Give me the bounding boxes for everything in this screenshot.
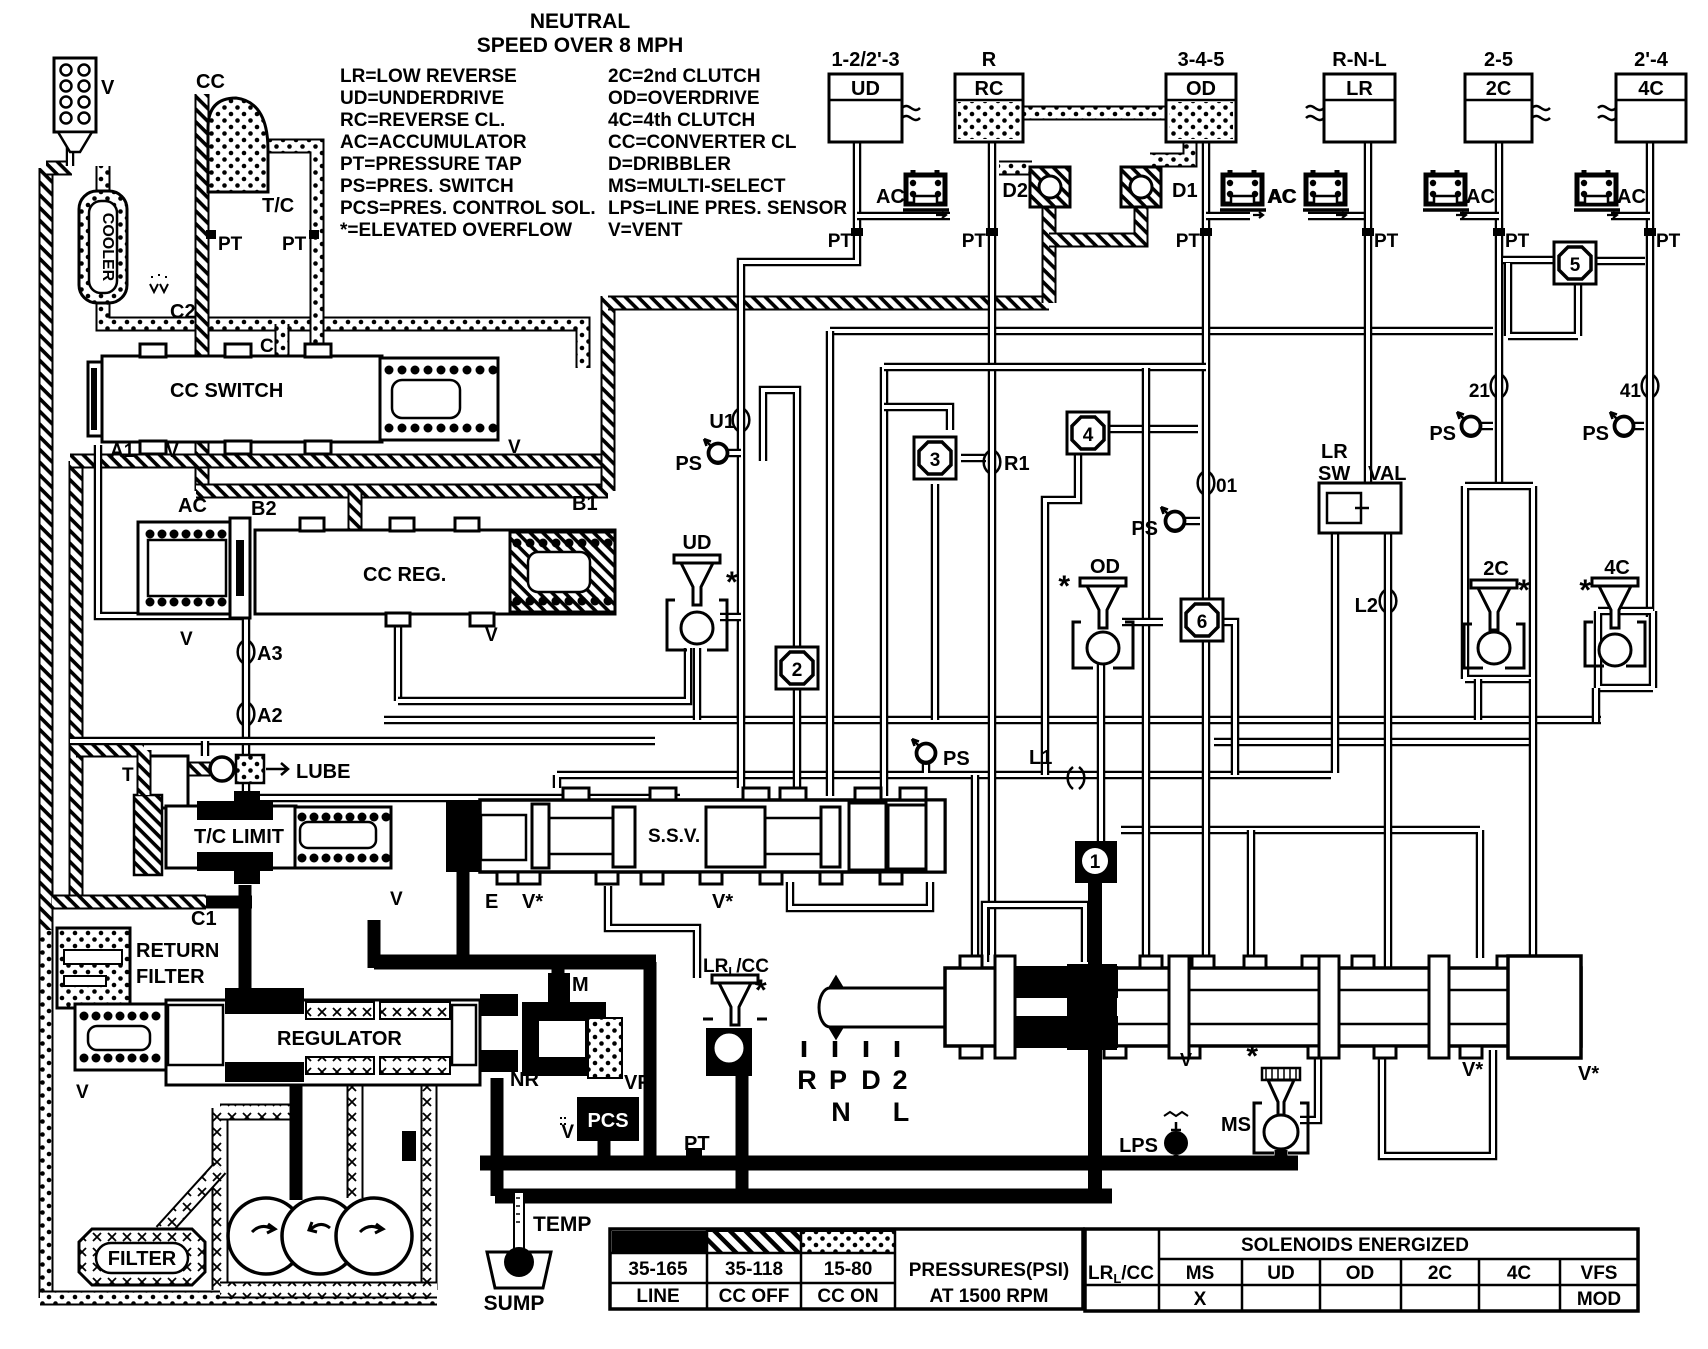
svg-text:LR: LR: [1346, 78, 1373, 100]
black pump tap: [402, 1131, 416, 1161]
svg-text:V*: V*: [1578, 1063, 1599, 1085]
svg-text:L1: L1: [1029, 747, 1052, 769]
svg-text:PT: PT: [1374, 231, 1399, 252]
pressure switch PS (UD line): [704, 439, 728, 464]
sump temp gauge: [514, 1192, 524, 1250]
svg-text:OD: OD: [1090, 556, 1120, 578]
wire suction x-pipe left vertical: [212, 1108, 229, 1290]
wire CC hatched below switch: [195, 440, 210, 491]
svg-text:15-80: 15-80: [824, 1259, 873, 1280]
wire mid riser x830: [826, 331, 835, 796]
wire A3-A2 vertical: [242, 614, 251, 798]
svg-text:PS: PS: [1582, 423, 1609, 445]
lube circuit: [210, 757, 234, 781]
wire SSV feeds: [737, 630, 746, 788]
accumulator AC left: [138, 522, 234, 614]
svg-text:MS: MS: [1186, 1263, 1215, 1284]
wire hatched D2-D1 link: [1049, 200, 1141, 240]
label U1: [733, 409, 750, 431]
check valve 2: [776, 647, 818, 689]
wire PS OD stub: [1184, 517, 1200, 526]
svg-text:V: V: [485, 625, 498, 646]
wire vent to left pipe: [46, 161, 72, 176]
svg-text:*: *: [1518, 574, 1530, 607]
svg-text:AC: AC: [1617, 186, 1646, 208]
svg-text:T/C LIMIT: T/C LIMIT: [194, 826, 284, 848]
svg-text:SOLENOIDS ENERGIZED: SOLENOIDS ENERGIZED: [1241, 1235, 1469, 1256]
svg-text:FILTER: FILTER: [108, 1248, 177, 1270]
wire mid riser x881: [880, 367, 889, 796]
svg-text:LRL/CC: LRL/CC: [1088, 1263, 1154, 1286]
wire RC clutch line: [988, 141, 997, 955]
solenoid PCS: [577, 1097, 639, 1141]
wire hatched CC REG feed: [348, 491, 363, 533]
wire black C1 horizontal: [206, 896, 252, 909]
svg-text:V*: V*: [1462, 1059, 1483, 1081]
svg-text:PRESSURES(PSI): PRESSURES(PSI): [909, 1260, 1069, 1281]
svg-text:M: M: [572, 974, 589, 996]
svg-text:LPS=LINE PRES. SENSOR: LPS=LINE PRES. SENSOR: [608, 198, 847, 219]
svg-text:D: D: [861, 1065, 881, 1095]
svg-text:4C: 4C: [1638, 78, 1664, 100]
wire L1 bus y770: [557, 775, 1331, 788]
svg-text:PS=PRES. SWITCH: PS=PRES. SWITCH: [340, 176, 514, 197]
svg-text:2C: 2C: [1428, 1263, 1453, 1284]
svg-text:B1: B1: [572, 493, 598, 515]
wire suction x-pipe mid vertical: [347, 1085, 364, 1198]
svg-text:2C=2nd CLUTCH: 2C=2nd CLUTCH: [608, 66, 761, 87]
svg-text:MOD: MOD: [1577, 1289, 1621, 1310]
check valve 4: [1067, 412, 1109, 454]
wire suction x-pipe bottom: [220, 1282, 437, 1299]
wire OD D1 dotted stub: [1150, 141, 1190, 160]
svg-text:V: V: [508, 437, 521, 458]
svg-text:OD=OVERDRIVE: OD=OVERDRIVE: [608, 88, 760, 109]
wire black band upper: [480, 1156, 1112, 1171]
svg-text:4C: 4C: [1507, 1263, 1532, 1284]
svg-text:*: *: [1579, 574, 1591, 607]
svg-text:41: 41: [1620, 381, 1642, 402]
svg-text:2: 2: [892, 1065, 907, 1095]
svg-text:V: V: [1180, 1050, 1192, 1070]
svg-text:D=DRIBBLER: D=DRIBBLER: [608, 154, 731, 175]
svg-text:35-165: 35-165: [628, 1259, 688, 1280]
svg-text:SPEED OVER 8 MPH: SPEED OVER 8 MPH: [477, 34, 684, 57]
svg-text:LR=LOW REVERSE: LR=LOW REVERSE: [340, 66, 517, 87]
label 41: [1642, 375, 1659, 397]
svg-text:CC ON: CC ON: [817, 1286, 878, 1307]
wire hatched B2 line: [196, 484, 608, 499]
svg-text:AC: AC: [876, 186, 905, 208]
wire black box1 drop: [1088, 878, 1102, 1196]
wire manual valve feeds: [975, 775, 1251, 958]
wire 2C sol drain: [1478, 679, 1533, 958]
svg-text:A3: A3: [257, 643, 283, 665]
wire black NR drop: [491, 1078, 504, 1196]
svg-text:UD: UD: [851, 78, 880, 100]
valve REGULATOR: [75, 1004, 167, 1070]
wire UD sol side link: [720, 613, 741, 622]
label L1: [1068, 767, 1085, 789]
svg-text:PT=PRESSURE TAP: PT=PRESSURE TAP: [340, 154, 522, 175]
torque converter T/C dome: [208, 98, 268, 192]
wire MS side loop: [1300, 1050, 1318, 1120]
node A2: [238, 703, 255, 725]
accumulator AC (4C): [1574, 170, 1620, 218]
wire LR SW left leg: [1331, 533, 1340, 773]
svg-text:PCS: PCS: [587, 1110, 628, 1132]
vent stack V: [54, 58, 96, 132]
svg-text:S.S.V.: S.S.V.: [648, 826, 700, 847]
svg-text:LPS: LPS: [1119, 1135, 1158, 1157]
svg-text:V: V: [101, 77, 115, 99]
svg-text:R: R: [982, 49, 997, 71]
svg-text:V: V: [561, 1122, 574, 1143]
svg-text:VF: VF: [624, 1072, 650, 1094]
svg-text:V: V: [76, 1082, 89, 1103]
wire 4C sol drain: [1592, 688, 1601, 722]
svg-text:*=ELEVATED OVERFLOW: *=ELEVATED OVERFLOW: [340, 220, 572, 241]
accumulator AC (OD): [1220, 170, 1266, 218]
accumulator AC (LR): [1303, 170, 1349, 218]
svg-text:6: 6: [1197, 612, 1208, 633]
wire circle3 top link: [884, 407, 950, 430]
wire UD sol loop horizontal: [398, 648, 688, 701]
svg-text:4C=4th CLUTCH: 4C=4th CLUTCH: [608, 110, 755, 131]
svg-text:5: 5: [1570, 255, 1581, 276]
svg-text:V: V: [166, 441, 179, 462]
svg-text:UD: UD: [683, 532, 712, 554]
svg-text:RETURN: RETURN: [136, 940, 219, 962]
pump assembly: [228, 1198, 412, 1274]
label R1: [984, 451, 1001, 473]
svg-text:V: V: [390, 889, 403, 910]
return filter: [57, 928, 130, 1008]
wire hatched riser x608: [601, 296, 616, 491]
svg-text:R-N-L: R-N-L: [1332, 49, 1386, 71]
wire A2 horizontal to SSV: [246, 794, 680, 803]
svg-text:B2: B2: [251, 498, 277, 520]
pressure switch PS (4C line): [1610, 412, 1634, 437]
dribbler D2: [1030, 167, 1070, 207]
svg-text:NEUTRAL: NEUTRAL: [530, 10, 630, 33]
wire UD sol drain: [693, 648, 702, 720]
svg-text:AC: AC: [1466, 186, 1495, 208]
wire circle3 drain: [931, 484, 940, 720]
svg-text:AT 1500 RPM: AT 1500 RPM: [930, 1286, 1049, 1307]
manual valve lever: [830, 977, 842, 1038]
wire left main hatched vertical: [39, 168, 54, 940]
wire hatched lube branch: [76, 743, 144, 758]
svg-text:3: 3: [930, 450, 941, 471]
svg-text:*: *: [1246, 1040, 1258, 1073]
wire C dotted stub: [275, 324, 290, 360]
wire main bus y720: [384, 716, 1601, 725]
svg-text:PT: PT: [828, 231, 853, 252]
svg-text:LINE: LINE: [636, 1286, 679, 1307]
svg-text:PS: PS: [943, 748, 970, 770]
wire cooler inlet dotted: [96, 166, 111, 195]
wire 4C sol loop: [1598, 611, 1653, 688]
wire black M stub: [552, 962, 565, 1000]
wire circle5 left link: [1503, 256, 1555, 265]
wire PS L1 stem: [922, 762, 931, 773]
svg-text:P: P: [829, 1065, 847, 1095]
svg-text:T: T: [122, 765, 134, 786]
svg-text:L: L: [893, 1097, 910, 1127]
wire riser x1146: [1142, 368, 1151, 958]
wire UD clutch line: [741, 142, 857, 720]
wire black header left riser: [368, 920, 381, 968]
svg-text:C1: C1: [191, 908, 217, 930]
wire second left hatched vertical: [69, 461, 84, 896]
svg-text:N: N: [831, 1097, 851, 1127]
svg-text:21: 21: [1469, 381, 1491, 402]
svg-text:PT: PT: [962, 231, 987, 252]
wire circle4 drain: [1045, 454, 1078, 775]
wire T hatched stub: [137, 750, 152, 795]
wire circle4 right link: [1108, 425, 1198, 434]
wire OD sol link to circle6: [1122, 618, 1163, 627]
svg-text:UD: UD: [1267, 1263, 1294, 1284]
wire bottom-left dotted border: [40, 1291, 437, 1306]
svg-text:FILTER: FILTER: [136, 966, 205, 988]
svg-text:CC SWITCH: CC SWITCH: [170, 380, 283, 402]
wire left dotted vertical lower: [39, 930, 54, 1298]
svg-text:VFS: VFS: [1581, 1263, 1618, 1284]
svg-text:4C: 4C: [1604, 557, 1630, 579]
wire PS 4C stub: [1633, 422, 1644, 431]
wire manual valve V stub: [1182, 1046, 1191, 1058]
svg-text:*: *: [726, 566, 738, 599]
label 01: [1198, 472, 1215, 494]
svg-text:D2: D2: [1002, 180, 1028, 202]
svg-text:R1: R1: [1004, 453, 1030, 475]
wire 2C clutch line: [1495, 142, 1504, 486]
svg-text:PT: PT: [282, 234, 307, 255]
wire black E drop: [457, 872, 470, 962]
wire CC REG left drain: [394, 624, 403, 701]
wire UD AC branch: [857, 212, 950, 221]
wire lube out: [188, 762, 210, 777]
svg-text:C: C: [260, 336, 274, 357]
wire top-right bus y331: [830, 327, 1493, 336]
svg-text:L2: L2: [1355, 595, 1378, 617]
wire circle5 bypass loop: [1508, 263, 1578, 336]
wire CC hatched vertical: [195, 94, 210, 358]
filter: [79, 1229, 205, 1285]
svg-text:PT: PT: [1505, 231, 1530, 252]
wire LR clutch line: [1364, 142, 1373, 483]
pressure switch PS (2C line): [1457, 412, 1481, 437]
pressure switch PS (OD line): [1161, 507, 1185, 532]
svg-text:AC=ACCUMULATOR: AC=ACCUMULATOR: [340, 132, 527, 153]
wire black pump riser: [290, 1085, 303, 1200]
wire circle5 right link: [1597, 257, 1645, 266]
svg-text:E: E: [485, 891, 498, 913]
wire T/C right wall dotted: [268, 146, 317, 358]
wire AC3 branch to LR: [1308, 212, 1368, 221]
wire OD AC branch: [1206, 212, 1250, 221]
wire LR SW right leg L2: [1384, 533, 1393, 1046]
wire RC D2 stub dotted: [999, 161, 1032, 176]
accumulator AC (UD): [903, 170, 949, 218]
svg-text:AC: AC: [178, 495, 207, 517]
svg-text:V*: V*: [522, 891, 543, 913]
valve T/C LIMIT: [148, 756, 188, 808]
check valve 3: [914, 437, 956, 479]
svg-text:LUBE: LUBE: [296, 761, 350, 783]
svg-text:T/C: T/C: [262, 195, 294, 217]
svg-text:PS: PS: [1131, 518, 1158, 540]
wire manual valve drain loop: [1382, 1050, 1493, 1156]
wire black LPS-MS line: [1105, 1156, 1298, 1171]
svg-text:AC: AC: [1268, 186, 1297, 208]
wire black PCS drop: [598, 1139, 611, 1163]
wire bus2 y367: [884, 363, 1206, 372]
wire 4C clutch line: [1646, 142, 1655, 617]
svg-text:2C: 2C: [1486, 78, 1512, 100]
check valve 6: [1181, 599, 1223, 641]
accumulator AC (2C): [1423, 170, 1469, 218]
svg-text:CC OFF: CC OFF: [719, 1286, 790, 1307]
wire right bus y742: [1214, 738, 1529, 747]
svg-text:CC: CC: [196, 71, 225, 93]
pressure legend table: [610, 1229, 1083, 1309]
svg-text:PT: PT: [1656, 231, 1681, 252]
wire LRL/CC feed: [608, 886, 697, 978]
svg-text:35-118: 35-118: [725, 1259, 783, 1280]
svg-text:UD=UNDERDRIVE: UD=UNDERDRIVE: [340, 88, 504, 109]
pressure control solenoid PCS area: [522, 1002, 606, 1076]
wire circle6 right link: [1221, 622, 1235, 775]
wire 4C AC branch: [1611, 212, 1650, 221]
label 21: [1491, 375, 1508, 397]
label L2: [1380, 590, 1397, 612]
wire black LRL/CC drain: [736, 1075, 749, 1196]
wire suction x-pipe top link: [220, 1104, 292, 1121]
node A1 loop pipe: [98, 445, 246, 616]
wire PS 2C stub: [1480, 422, 1493, 431]
svg-text:V: V: [180, 629, 193, 650]
wire hatched D2 drop: [1042, 206, 1057, 303]
svg-text:V*: V*: [712, 891, 733, 913]
wire lube line left: [70, 737, 655, 746]
solenoids energized table: [1085, 1229, 1638, 1311]
svg-text:TEMP: TEMP: [533, 1213, 591, 1236]
wire RC-OD dotted top pipe: [1023, 106, 1166, 121]
wire manual valve left loop: [985, 905, 1085, 962]
wire filter outlet diagonal: [162, 1168, 220, 1232]
valve CC REG: [255, 530, 615, 614]
svg-text:2C: 2C: [1483, 558, 1509, 580]
svg-text:4: 4: [1083, 425, 1094, 446]
svg-text:2'-4: 2'-4: [1634, 49, 1669, 71]
wire black C1 drop: [239, 885, 252, 1010]
wire black header right drop: [644, 962, 657, 1160]
node A3: [238, 641, 255, 663]
node C2 dribbler: [150, 272, 168, 292]
svg-text:C2: C2: [170, 301, 196, 323]
svg-text:NR: NR: [510, 1069, 539, 1091]
wire suction x-pipe right vertical: [421, 1058, 438, 1290]
svg-text:*: *: [755, 974, 767, 1007]
svg-text:RC=REVERSE CL.: RC=REVERSE CL.: [340, 110, 505, 131]
svg-text:PT: PT: [1176, 231, 1201, 252]
svg-text:COOLER: COOLER: [99, 213, 116, 282]
svg-text:*: *: [1058, 570, 1070, 603]
wire 2C AC branch: [1460, 212, 1499, 221]
svg-text:2: 2: [792, 660, 803, 681]
svg-text:MS: MS: [1221, 1114, 1251, 1136]
svg-text:CC=CONVERTER CL: CC=CONVERTER CL: [608, 132, 797, 153]
svg-text:U1: U1: [709, 411, 735, 433]
svg-text:X: X: [1194, 1289, 1207, 1310]
svg-text:R: R: [797, 1065, 817, 1095]
svg-text:LR: LR: [1321, 441, 1348, 463]
svg-text:PS: PS: [675, 453, 702, 475]
shifter gate: [804, 1041, 897, 1057]
check valve 5: [1554, 242, 1596, 284]
wire black band lower: [495, 1189, 1112, 1204]
svg-text:01: 01: [1216, 476, 1238, 497]
wire OD clutch line: [1202, 141, 1211, 968]
svg-text:RC: RC: [975, 78, 1004, 100]
wire hatched long B1 line: [608, 296, 1049, 311]
wire circle2 drain: [793, 687, 802, 800]
wire OD sol drain to check valve 1: [1097, 660, 1106, 841]
dribbler D1: [1121, 167, 1161, 207]
svg-text:A1: A1: [110, 441, 135, 462]
svg-text:SUMP: SUMP: [484, 1292, 545, 1315]
svg-text:3-4-5: 3-4-5: [1178, 49, 1225, 71]
svg-text:1: 1: [1090, 852, 1101, 873]
svg-text:1-2/2'-3: 1-2/2'-3: [831, 49, 899, 71]
svg-text:CC REG.: CC REG.: [363, 564, 446, 586]
wire cooler outlet dotted: [103, 300, 583, 368]
wire circle3 stub: [961, 454, 986, 463]
valve S.S.V.: [446, 800, 480, 872]
pressure switch PS (L1 line): [912, 739, 936, 764]
svg-text:REGULATOR: REGULATOR: [277, 1028, 402, 1050]
svg-text:PS: PS: [1429, 423, 1456, 445]
svg-text:PT: PT: [218, 234, 243, 255]
valve manual (main spool): [945, 968, 1581, 1046]
wire right bus y826: [1121, 830, 1480, 958]
svg-text:2-5: 2-5: [1484, 49, 1513, 71]
svg-text:A2: A2: [257, 705, 283, 727]
valve CC SWITCH: [88, 362, 104, 436]
wire PS UD stub: [727, 449, 741, 458]
wire SSV drain loop: [790, 882, 930, 908]
wire 2C sol loop: [1465, 486, 1533, 679]
wire black main header: [374, 955, 656, 970]
wire black MS stub: [1275, 1150, 1288, 1163]
svg-text:OD: OD: [1186, 78, 1216, 100]
svg-text:MS=MULTI-SELECT: MS=MULTI-SELECT: [608, 176, 786, 197]
check valve 1 (black box): [1075, 841, 1117, 883]
wire T/C LIMIT top stub: [201, 741, 210, 756]
svg-text:V=VENT: V=VENT: [608, 220, 683, 241]
wire left drain hatched horizontal: [52, 895, 206, 910]
wire hatched main B-line upper: [70, 454, 614, 469]
svg-text:D1: D1: [1172, 180, 1198, 202]
svg-text:PCS=PRES. CONTROL SOL.: PCS=PRES. CONTROL SOL.: [340, 198, 596, 219]
wire circle2 riser: [763, 390, 797, 648]
svg-text:OD: OD: [1346, 1263, 1375, 1284]
cooler: [79, 191, 127, 303]
